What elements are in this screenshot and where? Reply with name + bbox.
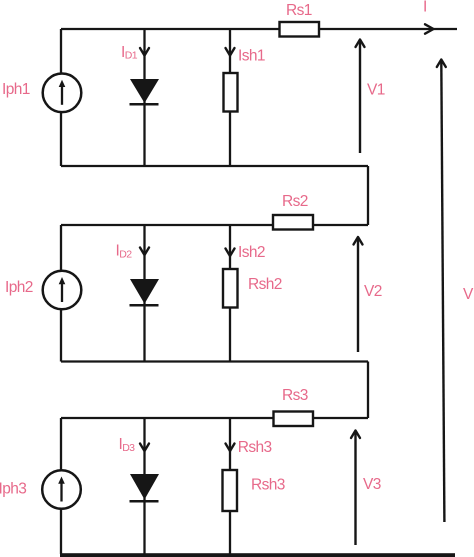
svg-text:Rsh3: Rsh3 [238,439,272,456]
svg-text:Ish1: Ish1 [238,48,265,65]
current arrow ID2 [140,248,149,256]
wire diode branch cell 2 [143,225,145,362]
current arrow Ish1 [226,48,235,56]
svg-text:Ish2: Ish2 [238,244,265,261]
current arrow Ish2 [226,249,235,257]
wire top rail cell 3 [61,417,368,419]
resistor Rs2 [273,215,313,230]
label ID2 [116,242,133,260]
current arrow Ish3 [226,444,235,452]
resistor Rsh3 [223,470,238,511]
svg-text:Iph2: Iph2 [5,279,33,296]
wire shunt branch cell 1 [229,29,231,166]
current source Iph3 [42,470,81,509]
svg-text:Rsh2: Rsh2 [248,276,282,293]
wire shunt branch cell 3 [229,418,231,554]
wire bottom rail cell 3 [60,553,455,557]
voltage arrow V3 [351,431,360,546]
svg-text:D2: D2 [119,248,132,260]
resistor Rs3 [274,412,314,427]
wire left rail cell 1 [60,29,62,166]
label ID1 [121,44,138,62]
svg-text:Rs1: Rs1 [286,2,312,19]
svg-text:Rs3: Rs3 [282,387,308,404]
diode D1 [130,79,160,104]
wire left rail cell 3 [60,418,62,554]
svg-text:I: I [423,0,427,16]
svg-text:Iph3: Iph3 [0,481,26,498]
wire bottom rail cell 1 [61,165,368,167]
voltage arrow V2 [354,237,363,352]
svg-text:Rs2: Rs2 [282,193,308,210]
resistor Rsh2 [223,269,238,308]
current source Iph1 [43,74,82,113]
svg-text:V2: V2 [364,283,382,300]
svg-text:V3: V3 [363,476,381,493]
wire top rail cell 1 [61,28,457,30]
wire junction cell1 to cell2 [367,166,369,225]
current source Iph2 [43,271,82,310]
wire diode branch cell 1 [143,29,145,166]
current arrow ID3 [140,444,149,452]
wire left rail cell 2 [60,225,62,362]
svg-text:V1: V1 [367,82,385,99]
label ID3 [119,436,136,454]
svg-text:V: V [463,286,474,303]
svg-text:D3: D3 [122,442,135,454]
resistor Rsh1 [224,73,238,112]
wire junction cell2 to cell3 [367,362,369,419]
wire shunt branch cell 2 [229,225,231,362]
voltage arrow V1 [356,40,365,154]
voltage arrow V [437,60,446,523]
resistor Rs1 [280,22,320,37]
wire bottom rail cell 2 [61,360,368,362]
svg-text:Rsh3: Rsh3 [251,477,285,494]
current arrow ID1 [140,48,149,56]
svg-text:Iph1: Iph1 [2,81,30,98]
current arrow I on top rail [425,24,434,33]
wire diode branch cell 3 [143,418,145,554]
diode D3 [130,474,160,501]
diode D2 [130,279,160,305]
svg-text:D1: D1 [125,50,138,62]
wire top rail cell 2 [61,224,368,226]
